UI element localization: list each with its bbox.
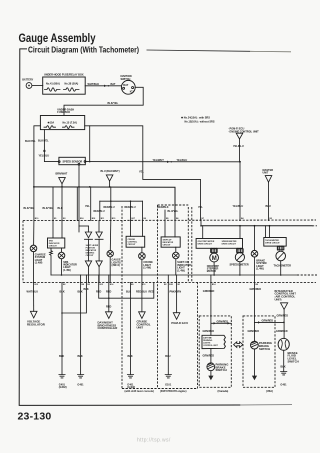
cruise control circuit bbox=[126, 221, 153, 283]
svg-text:B10: B10 bbox=[35, 218, 39, 220]
note: fuse variants bbox=[181, 116, 215, 124]
svg-text:- ENGINE CONTROL UNIT: - ENGINE CONTROL UNIT bbox=[228, 130, 259, 133]
tachometer drive circuit bbox=[264, 226, 286, 246]
gauge internal ground bus bbox=[51, 274, 317, 282]
svg-text:IG1: IG1 bbox=[130, 91, 135, 94]
connector BRN/WHT above bus bbox=[56, 173, 68, 187]
svg-text:RED/BLU: RED/BLU bbox=[104, 206, 115, 209]
svg-text:BLK: BLK bbox=[128, 355, 133, 358]
svg-text:B2: B2 bbox=[164, 284, 166, 286]
node speed signal / PGM-FI junction bbox=[233, 161, 244, 221]
ground wire G401 left bbox=[59, 282, 67, 389]
wire fuse to speed sensor, BLK/YEL to YEL/BLU bbox=[38, 130, 58, 162]
watermark bbox=[137, 438, 171, 444]
svg-text:YEL/BLU: YEL/BLU bbox=[177, 159, 188, 162]
svg-text:B3: B3 bbox=[88, 284, 90, 286]
svg-text:BLU: BLU bbox=[266, 205, 271, 208]
svg-text:BLK/YEL: BLK/YEL bbox=[108, 102, 119, 105]
svg-text:(with shift lever console): (with shift lever console) bbox=[125, 390, 154, 393]
gauge assembly dashed box bbox=[23, 220, 316, 282]
svg-text:(1.4W): (1.4W) bbox=[143, 267, 151, 270]
odo/trip meter + speedometer drive circuit bbox=[196, 226, 242, 249]
svg-text:YEL/BLU: YEL/BLU bbox=[233, 145, 244, 148]
brake system light bbox=[251, 226, 266, 283]
tachometer bbox=[274, 246, 292, 275]
frame border bbox=[19, 49, 292, 406]
svg-text:BRN/WHT: BRN/WHT bbox=[56, 173, 68, 176]
or-symbol between boxes bbox=[234, 342, 243, 348]
svg-text:GRN/RED: GRN/RED bbox=[262, 319, 274, 322]
svg-text:YEL/BLU: YEL/BLU bbox=[233, 205, 244, 208]
svg-text:BLU/YEL: BLU/YEL bbox=[168, 210, 179, 213]
svg-text:BLU (BLK/WHT): BLU (BLK/WHT) bbox=[101, 170, 120, 173]
svg-text:http://tsp.ws/: http://tsp.ws/ bbox=[137, 438, 171, 444]
dashed variant sub-borders bbox=[122, 205, 198, 389]
wire speed sensor output YEL/WHT - YEL/BLU bbox=[86, 159, 240, 163]
svg-text:(1.4W): (1.4W) bbox=[177, 269, 185, 272]
svg-text:GRN/RED: GRN/RED bbox=[203, 290, 215, 293]
daytime running lights control unit bbox=[202, 282, 231, 348]
svg-text:BAT: BAT bbox=[123, 84, 128, 87]
parking brake switch (USA) bbox=[248, 282, 284, 380]
svg-text:REGULATOR: REGULATOR bbox=[27, 323, 45, 327]
svg-text:(USA): (USA) bbox=[266, 390, 273, 393]
svg-text:TACHOMETER: TACHOMETER bbox=[274, 265, 292, 268]
svg-text:23-130: 23-130 bbox=[18, 411, 52, 423]
svg-text:No.38 (50A): No.38 (50A) bbox=[65, 83, 79, 86]
svg-text:RED/BLK: RED/BLK bbox=[158, 206, 169, 209]
SRS indicator circuit bbox=[48, 221, 78, 275]
svg-text:RED/BLU: RED/BLU bbox=[94, 210, 105, 213]
PGM-FI ECU lower connector bbox=[171, 282, 188, 324]
svg-text:GRN/RED: GRN/RED bbox=[217, 320, 229, 323]
svg-text:B6: B6 bbox=[176, 218, 178, 220]
svg-text:No.41 (80A): No.41 (80A) bbox=[46, 83, 60, 86]
svg-text:YEL/BLU: YEL/BLU bbox=[39, 155, 50, 158]
page title bbox=[19, 33, 96, 45]
svg-text:RED: RED bbox=[149, 291, 154, 294]
cruise control unit bbox=[137, 282, 151, 329]
svg-text:PGM-FI ECU: PGM-FI ECU bbox=[171, 321, 188, 325]
svg-text:G401: G401 bbox=[77, 383, 84, 386]
svg-text:B9: B9 bbox=[131, 284, 133, 286]
wire color labels above gauge box bbox=[24, 205, 204, 213]
brake fluid level switch bbox=[278, 338, 299, 386]
shift lever position indicator dimming circuit bbox=[79, 221, 103, 283]
charge system light bbox=[30, 221, 46, 283]
svg-text:YEL: YEL bbox=[198, 206, 203, 209]
svg-text:B2: B2 bbox=[270, 218, 272, 220]
svg-text:B7: B7 bbox=[202, 218, 204, 220]
svg-text:GRN/RED: GRN/RED bbox=[203, 330, 215, 333]
svg-text:WHT/BLK: WHT/BLK bbox=[88, 83, 100, 86]
svg-text:BLK: BLK bbox=[59, 355, 64, 358]
svg-text:UNDER-HOOD FUSE/RELAY BOX: UNDER-HOOD FUSE/RELAY BOX bbox=[44, 73, 84, 76]
variant captions bbox=[125, 390, 187, 393]
connector pin labels at gauge box top bbox=[35, 217, 272, 220]
svg-text:WHT/BLU: WHT/BLU bbox=[27, 291, 39, 294]
svg-text:PNK/GRN: PNK/GRN bbox=[170, 291, 182, 294]
svg-text:BLK/YEL: BLK/YEL bbox=[38, 139, 49, 142]
svg-text:BAT: BAT bbox=[111, 83, 116, 86]
svg-text:DRIVE CIRCUIT: DRIVE CIRCUIT bbox=[222, 244, 237, 246]
parking brake switch (Canada) bbox=[203, 349, 230, 381]
svg-text:YEL: YEL bbox=[139, 171, 144, 174]
diagram subtitle on frame bbox=[28, 45, 139, 55]
Canada dashed box bbox=[199, 316, 231, 393]
svg-text:GRN/RED: GRN/RED bbox=[277, 314, 289, 317]
svg-text:GRN/RED: GRN/RED bbox=[203, 355, 215, 358]
USA dashed box bbox=[243, 316, 275, 393]
wire speed sensor ground down to bus bbox=[78, 165, 80, 187]
gauge control unit connector (right) bbox=[263, 169, 274, 221]
svg-text:CIRCUIT: CIRCUIT bbox=[163, 244, 172, 246]
svg-text:B17: B17 bbox=[132, 218, 136, 220]
svg-text:BLK/YEL: BLK/YEL bbox=[24, 207, 35, 210]
ground wire G401 second bbox=[77, 282, 84, 386]
svg-text:GRN/RED: GRN/RED bbox=[276, 330, 288, 333]
ground wire G101 bbox=[165, 282, 172, 386]
shift-up indicator circuit bbox=[161, 221, 191, 275]
wire color labels below gauge box bbox=[27, 288, 262, 294]
integrated control unit connector bbox=[275, 289, 297, 339]
svg-text:SWITCH: SWITCH bbox=[216, 368, 227, 372]
page number bbox=[18, 411, 52, 423]
svg-text:BLK/YEL: BLK/YEL bbox=[43, 207, 54, 210]
svg-text:DRIVE CIRCUIT: DRIVE CIRCUIT bbox=[265, 243, 280, 245]
svg-text:BATTERY: BATTERY bbox=[22, 79, 33, 82]
voltage regulator bbox=[27, 282, 45, 326]
svg-text:(Canada): (Canada) bbox=[218, 390, 229, 393]
svg-text:YEL: YEL bbox=[85, 205, 90, 208]
main power bus bbox=[33, 186, 175, 221]
battery bbox=[22, 79, 33, 89]
wire under-dash box right exit to gauge B7 via staircase bbox=[85, 126, 201, 221]
svg-text:GRN/RED: GRN/RED bbox=[248, 330, 260, 333]
svg-text:CONTROLLER: CONTROLLER bbox=[98, 326, 118, 330]
svg-text:BLK: BLK bbox=[78, 291, 83, 294]
svg-text:B3: B3 bbox=[63, 218, 65, 220]
odo/trip stepper motor bbox=[207, 248, 219, 275]
svg-text:YEL/WHT: YEL/WHT bbox=[153, 159, 165, 162]
svg-text:(1.4W): (1.4W) bbox=[63, 269, 71, 272]
svg-text:GRN/RED: GRN/RED bbox=[250, 288, 262, 291]
svg-text:BLK: BLK bbox=[78, 355, 83, 358]
meter drive bus bbox=[200, 220, 317, 227]
connector pin labels at gauge box bottom bbox=[35, 283, 258, 286]
svg-text:No.15 (7.5A): No.15 (7.5A) bbox=[63, 121, 78, 124]
svg-text:G101: G101 bbox=[165, 383, 172, 386]
speedometer bbox=[230, 248, 249, 275]
svg-text:(1.4W): (1.4W) bbox=[256, 268, 264, 271]
under-hood fuse/relay box bbox=[43, 73, 85, 94]
svg-text:B16: B16 bbox=[80, 218, 84, 220]
svg-text:CIRCUIT: CIRCUIT bbox=[49, 245, 58, 247]
wire battery to under-hood box bbox=[32, 85, 43, 87]
wire B3 join to ground branch bbox=[61, 282, 86, 313]
svg-text:B6: B6 bbox=[256, 284, 258, 286]
svg-text:BLK: BLK bbox=[281, 365, 286, 368]
svg-text:✱ No.24(15A) : with SRS: ✱ No.24(15A) : with SRS bbox=[181, 116, 210, 120]
svg-text:(G402): (G402) bbox=[59, 386, 67, 389]
svg-text:CIRCUIT: CIRCUIT bbox=[86, 255, 95, 257]
svg-text:(1.4W): (1.4W) bbox=[35, 262, 43, 265]
under-dash fuse box bbox=[40, 108, 84, 129]
headlight brightness controller bbox=[98, 282, 154, 330]
ground wire G401 third bbox=[127, 282, 135, 389]
svg-text:(3W×4): (3W×4) bbox=[112, 264, 120, 267]
svg-text:CONTROL UNIT: CONTROL UNIT bbox=[203, 345, 218, 347]
svg-text:(D16Y7/D16Y8 engine): (D16Y7/D16Y8 engine) bbox=[160, 390, 187, 393]
svg-text:UNIT: UNIT bbox=[137, 326, 144, 330]
wire under-hood box to ignition switch, WHT/BLK bbox=[85, 83, 121, 87]
svg-text:No.15(10A) : without SRS: No.15(10A) : without SRS bbox=[185, 121, 215, 124]
svg-text:BLK/YEL: BLK/YEL bbox=[25, 140, 36, 143]
svg-text:B19: B19 bbox=[142, 284, 146, 286]
svg-text:B2: B2 bbox=[63, 284, 65, 286]
svg-text:BLK: BLK bbox=[58, 207, 63, 210]
wire ignition IG1 down-left to under-dash fuse box, BLK/YEL bbox=[64, 87, 143, 115]
speed sensor bbox=[58, 157, 86, 165]
svg-text:UNIT›: UNIT› bbox=[275, 298, 283, 302]
gauge lights bulb bbox=[107, 221, 121, 283]
svg-text:MOTOR: MOTOR bbox=[207, 270, 216, 273]
svg-text:UNIT: UNIT bbox=[263, 172, 269, 175]
svg-text:B12: B12 bbox=[35, 284, 39, 286]
svg-text:RED: RED bbox=[106, 305, 111, 308]
svg-text:M: M bbox=[212, 256, 217, 262]
svg-text:B9: B9 bbox=[144, 218, 146, 220]
wire drops from bus to gauge connectors bbox=[34, 187, 165, 221]
wire fuse No.15 branch down to speedo signal bbox=[89, 126, 91, 162]
svg-text:Circuit Diagram (With Tachomet: Circuit Diagram (With Tachometer) bbox=[28, 45, 139, 55]
svg-text:G401: G401 bbox=[280, 383, 287, 386]
svg-text:BLU: BLU bbox=[165, 355, 170, 358]
PGM-FI ECU connector bbox=[228, 128, 259, 162]
svg-text:B20: B20 bbox=[169, 284, 173, 286]
svg-text:SPEEDOMETER: SPEEDOMETER bbox=[230, 264, 249, 267]
svg-text:Gauge Assembly: Gauge Assembly bbox=[19, 33, 96, 45]
ignition switch bbox=[121, 75, 136, 94]
svg-text:SWITCH: SWITCH bbox=[259, 347, 270, 351]
connector BLU above bus bbox=[101, 170, 120, 187]
wire under-dash box left exit down to main bus bbox=[25, 126, 40, 187]
svg-text:B13: B13 bbox=[100, 284, 104, 286]
svg-text:(G402): (G402) bbox=[127, 386, 135, 389]
svg-text:FUSE BOX: FUSE BOX bbox=[57, 111, 70, 114]
svg-text:RED/BLU: RED/BLU bbox=[125, 206, 136, 209]
svg-text:✱15A: ✱15A bbox=[48, 120, 55, 124]
svg-text:SWITCH: SWITCH bbox=[288, 360, 299, 364]
svg-text:DRIVE CIRCUIT: DRIVE CIRCUIT bbox=[198, 244, 213, 246]
svg-text:CIRCUIT: CIRCUIT bbox=[128, 244, 137, 246]
